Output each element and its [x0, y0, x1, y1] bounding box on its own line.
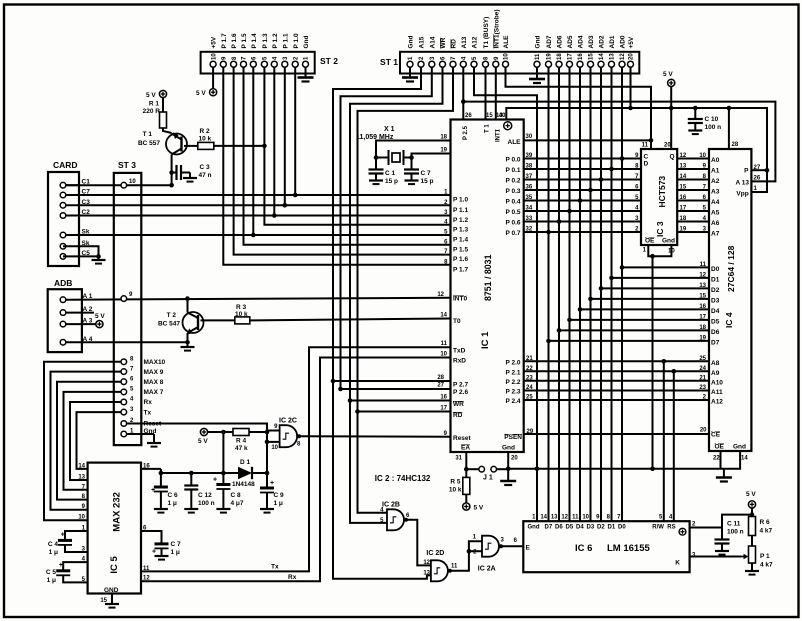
wire ST3 Reset row to gate node — [127, 424, 267, 431]
svg-text:+: + — [152, 549, 156, 556]
svg-text:10: 10 — [211, 53, 217, 60]
junction AD0 / D0 — [620, 265, 625, 270]
connector ST2 — [201, 52, 315, 74]
junction EA node — [464, 467, 469, 472]
svg-text:Gnd: Gnd — [662, 238, 675, 245]
svg-text:RD: RD — [451, 39, 458, 49]
wire ST3 row to IC5 via left bundle — [51, 372, 122, 510]
junction C12 — [189, 471, 194, 476]
svg-text:15: 15 — [486, 113, 493, 119]
wire A12 from ST1 pin5 down to IC6 pin1 — [474, 67, 537, 521]
IC1 Vcc plus marker pin40 — [504, 122, 512, 130]
svg-text:A13: A13 — [461, 36, 468, 48]
wire IC3 OE and Gnd pins loop — [648, 245, 671, 256]
svg-text:20: 20 — [664, 143, 671, 149]
wires IC3 Q outputs to IC4 A inputs — [677, 158, 709, 160]
wire R3 to IC1 T0 — [250, 319, 451, 321]
op IC6 LM16155 body — [523, 521, 689, 572]
svg-text:AD4: AD4 — [578, 35, 585, 48]
ground at T2 emitter — [181, 346, 195, 348]
wire CARD C1 row — [66, 184, 79, 186]
svg-text:27: 27 — [437, 383, 444, 389]
wire IC1 XTAL2 pin19 to crystal — [412, 154, 451, 158]
transistor T1 BC557 — [166, 134, 187, 155]
junction 5V rail / 5V symbol and IC3 pin20 — [669, 106, 674, 111]
svg-text:P 1.1: P 1.1 — [282, 33, 289, 48]
wire P1.7 row from ST2 pin9 — [223, 67, 450, 265]
svg-text:D 1: D 1 — [240, 459, 251, 466]
junction C8 / R4 branch — [221, 471, 226, 476]
svg-text:AD7: AD7 — [546, 35, 553, 48]
crystal X1 11.059 MHz — [388, 150, 390, 165]
wire T2 base to R3 — [201, 319, 235, 321]
svg-text:P 2.0: P 2.0 — [505, 360, 520, 367]
svg-text:P 1.5: P 1.5 — [453, 246, 468, 253]
svg-text:P 2.2: P 2.2 — [505, 379, 520, 386]
svg-text:T0: T0 — [453, 318, 461, 325]
wire ST1 pin9 INT1 to IC1 pin13 — [495, 67, 497, 119]
svg-text:P 2.7: P 2.7 — [453, 382, 468, 389]
junction P1.2 / ST2 pin4 — [272, 213, 277, 218]
wire T1 base to R2 — [184, 145, 198, 147]
svg-text:J 1: J 1 — [483, 475, 493, 482]
wire ST1 pin11 to ground — [536, 67, 538, 79]
ADB pin A 3 — [60, 321, 66, 327]
wire IC4 pin27 P to 5V — [751, 169, 767, 171]
svg-text:20: 20 — [511, 456, 518, 462]
ADB pin A 1 — [60, 297, 66, 303]
svg-text:1 μ: 1 μ — [49, 549, 58, 556]
svg-text:K: K — [675, 560, 680, 567]
power 5V symbol top right — [670, 87, 672, 109]
ground rail to IC4 — [508, 468, 720, 470]
svg-text:RS: RS — [667, 525, 675, 531]
wire R6 to P1 — [751, 536, 753, 547]
svg-text:40: 40 — [499, 113, 506, 119]
svg-text:E: E — [526, 545, 531, 552]
svg-text:D1: D1 — [711, 276, 720, 283]
junction P2.1 row / RS vertical — [672, 369, 677, 374]
svg-text:8751 / 8031: 8751 / 8031 — [483, 254, 493, 301]
svg-text:15 p: 15 p — [421, 178, 434, 185]
ST3 pin 2 Reset — [121, 421, 127, 427]
svg-text:12: 12 — [423, 560, 430, 566]
power +5V at ST2 pin 10 — [210, 89, 217, 96]
svg-text:+: + — [61, 532, 65, 539]
svg-text:A15: A15 — [419, 36, 426, 48]
svg-text:1N4148: 1N4148 — [232, 481, 255, 488]
svg-text:4 k7: 4 k7 — [760, 562, 773, 569]
wire IC2C output 8 to IC1 Reset — [301, 435, 450, 438]
svg-text:IC 3: IC 3 — [655, 221, 665, 237]
junction AD2 / D2 — [599, 286, 604, 291]
capacitor C3 47n — [172, 172, 177, 174]
wire R/W vertical to IC6 pin5 — [663, 361, 665, 521]
svg-text:11: 11 — [642, 143, 649, 149]
ST3 pin 6 MAX 8 — [121, 379, 127, 385]
svg-text:P 1.3: P 1.3 — [262, 33, 269, 48]
gate IC2C — [280, 425, 298, 447]
IC5 pin15 ground — [111, 594, 113, 605]
svg-text:P 1.7: P 1.7 — [221, 33, 228, 48]
svg-text:10 k: 10 k — [199, 136, 212, 143]
wire IC2C input 10 — [267, 441, 280, 443]
junction A13 node — [461, 99, 466, 104]
junction A14 / P2.6 row — [338, 387, 343, 392]
svg-text:11: 11 — [700, 262, 707, 268]
wire A15 vertical to IC2D input 13 — [333, 381, 431, 579]
junction A12 vertical / ground rail — [535, 467, 540, 472]
svg-text:14: 14 — [741, 456, 748, 462]
junction R4 left node — [221, 430, 226, 435]
svg-text:P 0.1: P 0.1 — [505, 167, 520, 174]
svg-text:C 6: C 6 — [168, 492, 179, 499]
svg-text:27C64 / 128: 27C64 / 128 — [726, 245, 736, 292]
wire AD4 vertical ST1 to IC6 — [579, 67, 581, 521]
svg-text:A12: A12 — [472, 36, 479, 48]
svg-text:IC 4: IC 4 — [724, 312, 734, 328]
svg-text:31: 31 — [455, 456, 462, 462]
svg-text:P 0.5: P 0.5 — [505, 209, 520, 216]
svg-text:100 n: 100 n — [727, 529, 744, 536]
svg-text:P 0.6: P 0.6 — [505, 220, 520, 227]
svg-text:1 μ: 1 μ — [274, 500, 283, 507]
ST3 pin 9 — [121, 296, 127, 302]
wire AD6 vertical ST1 to IC6 — [558, 67, 560, 521]
wire ST3 Gnd row — [127, 433, 154, 435]
svg-text:220 R: 220 R — [143, 108, 161, 115]
svg-text:C 7: C 7 — [421, 170, 432, 177]
wire IC6 pin2 to C11 node — [690, 527, 722, 529]
svg-text:23: 23 — [699, 385, 706, 391]
svg-text:13: 13 — [423, 571, 430, 577]
svg-text:A5: A5 — [711, 210, 720, 217]
svg-text:C 1: C 1 — [385, 170, 396, 177]
svg-text:13: 13 — [680, 164, 687, 170]
wire P1.4 row CARD Sk to IC1 pin5 — [63, 234, 451, 236]
IC4 A8-A12 rows from IC1 P2.0-P2.4 — [524, 360, 709, 362]
wire P1.3 row from ST2 pin5 — [264, 67, 450, 225]
junction gate pin10 branch — [265, 440, 270, 445]
svg-text:MAX 7: MAX 7 — [144, 389, 164, 396]
ground at IC1 pin20 — [507, 469, 509, 481]
wire node down to D1 cathode — [266, 431, 268, 474]
svg-text:Sk: Sk — [82, 229, 90, 236]
svg-text:D4: D4 — [576, 525, 584, 531]
power 5V above R1 — [159, 90, 166, 97]
svg-text:17: 17 — [699, 314, 706, 320]
junction AD7 / P0.7 — [546, 230, 551, 235]
wire ST1 pin20 +5V down to rail — [630, 67, 632, 108]
junction AD3 / P0.3 — [588, 188, 593, 193]
svg-text:5 V: 5 V — [474, 505, 484, 512]
wire ST2 P1.4 vertical — [252, 67, 254, 235]
ground at ST3 pin1 — [147, 442, 161, 444]
junction P1.0 / ST2 pin2 — [293, 193, 298, 198]
ST3 pin 7 MAX 9 — [121, 369, 127, 375]
wire RxD IC1 to MAX232 pin12 — [141, 358, 451, 582]
wire AD7 vertical ST1 to IC6 — [548, 67, 550, 521]
junction C3 tap — [169, 170, 174, 175]
svg-text:D: D — [644, 161, 649, 168]
connector ST3 — [114, 173, 142, 445]
svg-text:A12: A12 — [711, 399, 723, 406]
svg-text:10: 10 — [271, 445, 278, 451]
svg-text:11: 11 — [451, 564, 458, 570]
wire D3 row IC4 to AD vertical — [591, 298, 710, 300]
svg-text:20: 20 — [700, 428, 707, 434]
ground at ST1 pin11 — [529, 78, 545, 81]
wire IC3 ground vertical down to rail — [652, 256, 654, 469]
wire ST3 row to IC5 via left bundle — [44, 362, 121, 520]
svg-text:Gnd: Gnd — [733, 444, 746, 451]
svg-text:A 13: A 13 — [736, 180, 750, 187]
svg-text:15: 15 — [680, 185, 687, 191]
svg-text:A2: A2 — [711, 178, 720, 185]
svg-text:1 μ: 1 μ — [171, 549, 180, 556]
wire CARD C5 row to ground — [63, 255, 99, 257]
svg-text:100 n: 100 n — [705, 124, 722, 131]
svg-text:Rx: Rx — [288, 574, 297, 581]
wire IC1 pin20 Gnd down — [507, 452, 509, 469]
svg-text:HCT573: HCT573 — [657, 176, 667, 208]
wire ADB A2 stub — [66, 312, 94, 314]
svg-text:BC 547: BC 547 — [158, 321, 180, 328]
wire AD2 vertical ST1 to IC6 — [600, 67, 602, 521]
svg-text:D2: D2 — [597, 525, 605, 531]
junction AD1 / D1 — [609, 276, 614, 281]
svg-text:C 8: C 8 — [231, 492, 242, 499]
svg-text:Tx: Tx — [271, 564, 279, 571]
resistor R6 4k7 — [751, 515, 753, 517]
capacitor C11 100n — [721, 528, 723, 540]
svg-text:IC 2 : 74HC132: IC 2 : 74HC132 — [375, 474, 431, 483]
svg-text:TxD: TxD — [453, 348, 466, 355]
wire ST2 P1.0 vertical — [294, 67, 296, 195]
junction WR vertical / IC1 WR row — [348, 398, 353, 403]
wire ALE from ST1 pin10 to IC3 pin11 — [506, 67, 652, 149]
svg-text:11,059 MHz: 11,059 MHz — [356, 134, 394, 141]
svg-text:12: 12 — [620, 53, 626, 60]
svg-text:P 0.3: P 0.3 — [505, 188, 520, 195]
wire IC6 pin3 K to P1 wiper — [690, 556, 741, 558]
connector ADB — [48, 289, 82, 352]
wire AD0 vertical ST1 to IC6 — [621, 67, 623, 521]
svg-text:WR: WR — [440, 37, 447, 48]
ADB pin A 4 — [60, 340, 66, 346]
svg-text:R 5: R 5 — [450, 479, 461, 486]
svg-text:Gnd: Gnd — [528, 525, 540, 531]
resistor R4 47k — [233, 429, 249, 436]
svg-text:ALE: ALE — [508, 139, 522, 146]
wire IC4 pin22 OE to ground rail — [720, 451, 722, 469]
wire RS vertical to IC6 pin4 — [673, 371, 675, 521]
svg-text:Vpp: Vpp — [736, 191, 748, 198]
junction crystal right node — [409, 155, 414, 160]
IC6 plus pin2 — [679, 528, 686, 535]
CARD pin Sk — [60, 244, 66, 250]
CARD pin Sk — [60, 232, 66, 238]
svg-text:P 1.7: P 1.7 — [453, 266, 468, 273]
svg-text:P 2.5: P 2.5 — [463, 125, 469, 140]
wire P1.5 row from ST2 pin7 — [244, 67, 451, 245]
svg-text:10: 10 — [78, 515, 85, 521]
wire ST1 pin1 to ground — [409, 67, 411, 77]
svg-text:Reset: Reset — [453, 435, 472, 442]
capacitor C10 100n — [694, 108, 696, 119]
svg-text:P 1.3: P 1.3 — [453, 226, 468, 233]
svg-text:P 1.4: P 1.4 — [251, 33, 258, 48]
svg-text:IC 1: IC 1 — [480, 331, 491, 349]
svg-text:C 10: C 10 — [705, 116, 719, 123]
svg-text:ST 2: ST 2 — [320, 56, 338, 66]
svg-text:R 1: R 1 — [149, 101, 160, 108]
svg-text:19: 19 — [440, 148, 447, 154]
svg-text:10: 10 — [668, 249, 675, 255]
svg-text:A11: A11 — [711, 389, 723, 396]
svg-text:MAX 232: MAX 232 — [112, 492, 123, 532]
wire P0.1 row IC1 to IC3 — [524, 168, 641, 170]
CARD pin C3 — [60, 203, 66, 209]
svg-text:14: 14 — [680, 174, 687, 180]
svg-text:X 1: X 1 — [384, 126, 395, 133]
svg-text:BC 557: BC 557 — [138, 140, 160, 147]
svg-text:18: 18 — [699, 325, 706, 331]
svg-text:C2: C2 — [82, 209, 91, 216]
svg-text:P 1.6: P 1.6 — [231, 33, 238, 48]
junction C9 / D1 cathode — [265, 471, 270, 476]
svg-text:A9: A9 — [711, 370, 720, 377]
junction ALE row from IC1 — [649, 138, 654, 143]
gate IC2D — [431, 560, 448, 581]
wire ST2 P1.2 vertical — [273, 67, 275, 215]
wire P0.6 row IC1 to IC3 — [524, 221, 641, 223]
wire AD3 vertical ST1 to IC6 — [590, 67, 592, 521]
wire R4 node vertical — [222, 432, 224, 473]
svg-text:R 4: R 4 — [236, 438, 247, 445]
svg-text:12: 12 — [699, 272, 706, 278]
wire P1.6 row from ST2 pin8 — [234, 67, 451, 254]
svg-text:Rx: Rx — [144, 399, 153, 406]
svg-text:P 1.2: P 1.2 — [453, 217, 468, 224]
wire P1.2 row CARD C2 to IC1 pin3 — [63, 215, 451, 217]
svg-text:18: 18 — [557, 53, 563, 60]
junction ST1 pin20 / 5V rail — [628, 106, 633, 111]
svg-text:P 2.6: P 2.6 — [453, 389, 468, 396]
ST3 pin 1 — [121, 431, 127, 437]
svg-text:10: 10 — [699, 153, 706, 159]
wire to C11 — [722, 515, 752, 528]
ST3 pin 8 MAX10 — [121, 359, 127, 365]
junction P1.4 / ST2 pin6 — [251, 233, 256, 238]
ST3 pin 5 MAX 7 — [121, 389, 127, 395]
junction AD0 / P0.0 — [620, 156, 625, 161]
junction AD5 / P0.5 — [567, 209, 572, 214]
wire IC1 pin16 WR row — [350, 400, 451, 402]
svg-text:WR: WR — [453, 401, 464, 408]
svg-text:5 V: 5 V — [663, 71, 673, 78]
wire A15 from ST1 pin2 elbow — [333, 67, 421, 381]
svg-text:22: 22 — [713, 456, 720, 462]
svg-text:CE: CE — [711, 432, 721, 439]
svg-text:13: 13 — [78, 475, 85, 481]
svg-text:Gnd: Gnd — [303, 35, 310, 48]
svg-text:MAX 8: MAX 8 — [144, 379, 164, 386]
svg-text:A0: A0 — [711, 157, 720, 164]
junction IC2A input2 — [467, 549, 472, 554]
wire IC2A output to IC6 E — [501, 545, 524, 547]
wire P0.2 row IC1 to IC3 — [524, 179, 641, 181]
junction rail / IC3 OE vertical — [650, 467, 655, 472]
junction AD1 / P0.1 — [609, 167, 614, 172]
wire TxD IC1 to MAX232 pin11 — [141, 347, 451, 571]
wire ADB A3 to 5V — [66, 323, 96, 325]
junction 5V / C11 R6 — [750, 512, 755, 517]
wire IC2B output to IC2D input 12 — [406, 520, 431, 566]
svg-text:R/W: R/W — [652, 525, 664, 531]
wire IC1 pin28 P2.7 row — [333, 380, 451, 382]
resistor R2 10k — [198, 142, 214, 149]
svg-text:16: 16 — [578, 53, 584, 60]
wire IC2C input 9 — [267, 430, 280, 432]
wire ST3 row to IC5 via left bundle — [70, 402, 121, 480]
svg-text:Q: Q — [669, 154, 674, 161]
wire IC1 pin17 RD row — [358, 411, 451, 413]
wire D0 row IC4 to AD vertical — [622, 266, 709, 268]
ground at CARD C5 — [92, 259, 106, 261]
wire D5 row IC4 to AD vertical — [570, 319, 710, 321]
wire D2 row IC4 to AD vertical — [601, 287, 709, 289]
svg-text:14: 14 — [599, 53, 605, 60]
ground at IC4 — [723, 469, 725, 478]
svg-text:12: 12 — [680, 153, 687, 159]
svg-text:19: 19 — [680, 227, 687, 233]
ground at ST2 pin1 — [298, 76, 314, 79]
svg-text:A1: A1 — [711, 168, 720, 175]
connector CARD — [48, 172, 79, 266]
capacitor C9 1u — [266, 473, 268, 488]
op IC5 MAX232 body — [88, 463, 141, 594]
svg-text:P 1.4: P 1.4 — [453, 237, 468, 244]
svg-text:5 V: 5 V — [146, 92, 156, 99]
op IC4 27C64/128 body — [709, 149, 751, 451]
svg-text:10: 10 — [129, 179, 136, 185]
wire T2 emitter down to A4 row — [187, 333, 189, 342]
svg-text:D7: D7 — [711, 339, 720, 346]
junction 5V rail / C10 — [693, 106, 698, 111]
svg-text:C7: C7 — [82, 189, 91, 196]
svg-text:R 6: R 6 — [760, 519, 771, 526]
svg-text:D4: D4 — [711, 308, 720, 315]
svg-text:T1 (BUSY): T1 (BUSY) — [483, 17, 490, 49]
svg-text:D1: D1 — [608, 525, 616, 531]
junction OE loop to ground vertical — [650, 254, 655, 259]
svg-text:19: 19 — [699, 335, 706, 341]
svg-text:C 9: C 9 — [274, 492, 285, 499]
svg-text:IC 6: IC 6 — [575, 543, 592, 554]
svg-text:IC 2B: IC 2B — [382, 502, 400, 509]
svg-text:D0: D0 — [711, 266, 720, 273]
junction AD6 / D6 — [557, 328, 562, 333]
svg-text:AD5: AD5 — [567, 35, 574, 48]
svg-text:A14: A14 — [429, 36, 436, 48]
wire A13 from ST1 pin4 down to IC1 pin26 — [462, 67, 464, 119]
junction T2 collector / A1 row — [185, 296, 190, 301]
svg-text:P 2.3: P 2.3 — [505, 389, 520, 396]
svg-text:5 V: 5 V — [95, 313, 105, 320]
wire D1 row IC4 to AD vertical — [612, 277, 710, 279]
svg-text:P 0.0: P 0.0 — [505, 157, 520, 164]
